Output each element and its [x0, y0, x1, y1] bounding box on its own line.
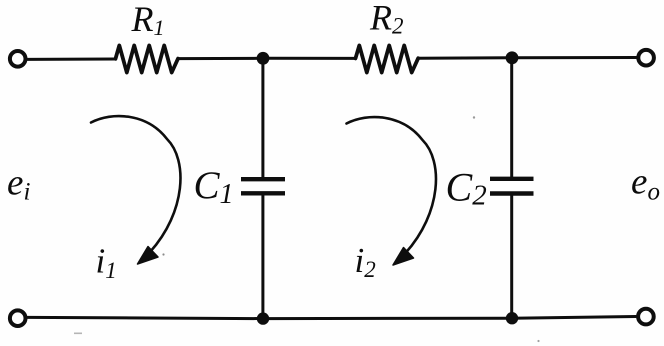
wire: node B to output terminal	[512, 56, 636, 59]
node A junction dot	[257, 52, 270, 65]
scan speckle	[473, 116, 475, 118]
capacitor C2	[490, 179, 534, 194]
capacitor C1	[241, 179, 285, 193]
wire: C2 branch lower	[510, 194, 513, 319]
terminal output top	[638, 50, 654, 66]
resistor R2	[356, 45, 419, 72]
terminal input bottom	[10, 310, 26, 326]
svg-text:R1: R1	[131, 0, 165, 40]
wire: node A to R2	[263, 57, 356, 60]
node C bottom junction dot	[257, 312, 269, 324]
terminal output bottom	[638, 309, 654, 325]
node B junction dot	[506, 51, 519, 64]
svg-text:i1: i1	[96, 242, 117, 284]
wire: R2 to node B	[418, 56, 512, 59]
svg-text:i2: i2	[355, 241, 376, 282]
svg-text:ei: ei	[7, 163, 30, 206]
resistor R1	[116, 45, 179, 72]
bottom rail wire	[28, 317, 636, 319]
wire: R1 to node A	[178, 57, 263, 60]
wire: input terminal to R1	[28, 58, 116, 61]
svg-text:C2: C2	[446, 165, 487, 212]
wire: C1 branch upper	[261, 58, 264, 177]
scan speckle	[537, 340, 539, 342]
scan speckle	[74, 333, 82, 335]
terminal input top	[10, 51, 26, 67]
svg-text:eo: eo	[631, 162, 660, 206]
node D bottom junction dot	[506, 312, 518, 324]
svg-text:R2: R2	[369, 0, 404, 39]
scan speckle	[162, 253, 164, 255]
mesh current arrow i2	[347, 117, 436, 265]
mesh current arrow i1	[91, 116, 180, 264]
wire: C1 branch lower	[261, 193, 264, 318]
wire: C2 branch upper	[510, 58, 513, 178]
svg-text:C1: C1	[194, 164, 234, 210]
